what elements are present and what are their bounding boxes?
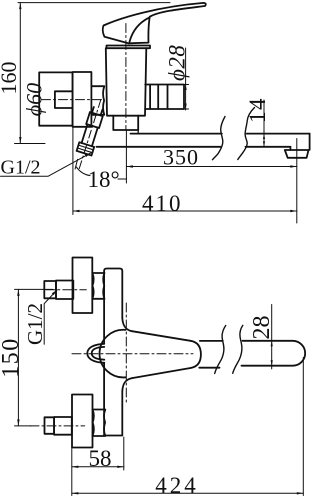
ext wall line (410 left) [72,128,74,215]
dim 410 line [73,210,297,212]
blade tip cap [191,341,201,368]
bottom union outer [45,417,55,434]
svg-text:G1/2: G1/2 [23,303,47,345]
leader G1/2 top view [1,153,92,177]
ext top of handle [18,2,170,4]
top union outer [44,281,56,298]
phi28 arrows [185,85,187,91]
spout tip bar [242,341,306,366]
bottom union centerline [30,425,85,427]
hose upper stub [92,107,102,115]
svg-text:ϕ28: ϕ28 [165,45,190,81]
wall union small nut [55,91,73,108]
outlet block under body [113,116,138,130]
svg-text:160: 160 [0,62,21,95]
pipe tip right edge [309,134,311,150]
28 arrows [271,341,273,347]
ext 424 right (spout tip) [302,358,304,496]
ext 58/424 left (flange) [71,448,73,496]
pipe break squiggle left [213,117,226,160]
58 arrows [72,466,79,468]
dim 150 line [17,289,19,426]
phi28 extension overhangs [184,85,189,110]
outlet step [137,130,139,134]
leader arrow top G1/2 [85,153,91,157]
bottom flange (front) [72,395,93,448]
cap band under handle [107,46,151,49]
break squiggle left (bottom view) [215,326,226,374]
spout pipe top edge (left of break) [131,133,222,135]
union centerline [42,99,103,101]
svg-text:28: 28 [249,316,275,340]
wall union outer square [39,72,72,125]
knob circle arc [100,330,126,378]
dim 58 line [72,466,124,468]
top union centerline [46,289,87,291]
aerator step [289,147,291,150]
angle 18 tick [118,178,126,180]
hose tube [82,124,98,146]
handle lever [103,3,206,43]
break squiggle right (bottom view) [233,325,243,373]
svg-text:14: 14 [245,97,270,123]
blade cone bottom [132,368,191,378]
350 arrows [126,165,132,167]
hose axis extension segment [75,159,78,169]
424 arrows [72,492,79,494]
spout nut block right of body [145,85,184,110]
svg-text:ϕ60: ϕ60 [22,83,47,116]
hose end collar lines [78,145,94,153]
blade fillet bottom [122,378,132,391]
14 arrows [263,134,265,139]
ext 150 top [15,288,54,290]
410 arrows [73,210,80,212]
dim 28 line [271,305,273,369]
svg-text:350: 350 [163,145,199,170]
spout stub top [200,340,223,342]
top flange (front) [73,258,93,314]
barrel nut flange-to-body [91,86,104,115]
top union inner [56,281,73,300]
svg-text:150: 150 [0,337,24,378]
leader arrow bottom G1/2 [52,290,57,295]
svg-text:58: 58 [89,446,112,471]
bottom barrel nut [93,410,106,437]
hose nut [86,112,103,128]
svg-text:G1/2: G1/2 [1,157,41,179]
ext 58 right (body) [123,437,125,470]
body side bump outer [87,344,104,363]
svg-text:410: 410 [142,191,183,216]
top barrel nut [92,273,104,299]
aerator trapezoid [285,150,309,158]
dim phi28 line [185,48,187,110]
ext aerator axis (right) [296,139,298,224]
escutcheon flange (side) [73,72,92,127]
ext bottom 160 [15,143,46,145]
body centerline [125,24,127,131]
spout stub bottom [199,367,219,369]
spout pipe bottom edge (right of break) [246,146,291,148]
blade cone top [132,331,191,341]
body (cartridge housing) [106,48,147,116]
body side bump inner [92,347,105,360]
hose centerline [79,100,101,170]
hose end collar [77,142,95,155]
angle 18 arc [76,167,90,176]
ext 150 bottom [15,425,32,427]
150 arrows [17,289,19,296]
dim 160 line [15,3,171,144]
svg-text:424: 424 [155,473,199,498]
svg-text:18°: 18° [88,167,120,192]
160 arrows [19,3,21,10]
handle axis horizontal centerline [72,353,193,355]
pipe break squiggle right [238,108,255,160]
spout pipe top edge (right of break) [247,133,310,135]
handle axis vertical centerline [125,303,127,404]
dim 350 line [126,166,296,168]
leader G1/2 bottom view [44,290,57,344]
ext centerline down (350 left) [125,130,127,183]
dim 424 line [72,492,303,494]
handle far-edge line [130,18,149,42]
shower hose (rotated group) [71,97,108,172]
spout pipe bottom edge (left of break) [97,146,221,148]
bottom union inner [54,417,72,435]
dim 14 line [263,100,265,147]
blade fillet top [122,318,132,331]
body tube [104,269,122,436]
